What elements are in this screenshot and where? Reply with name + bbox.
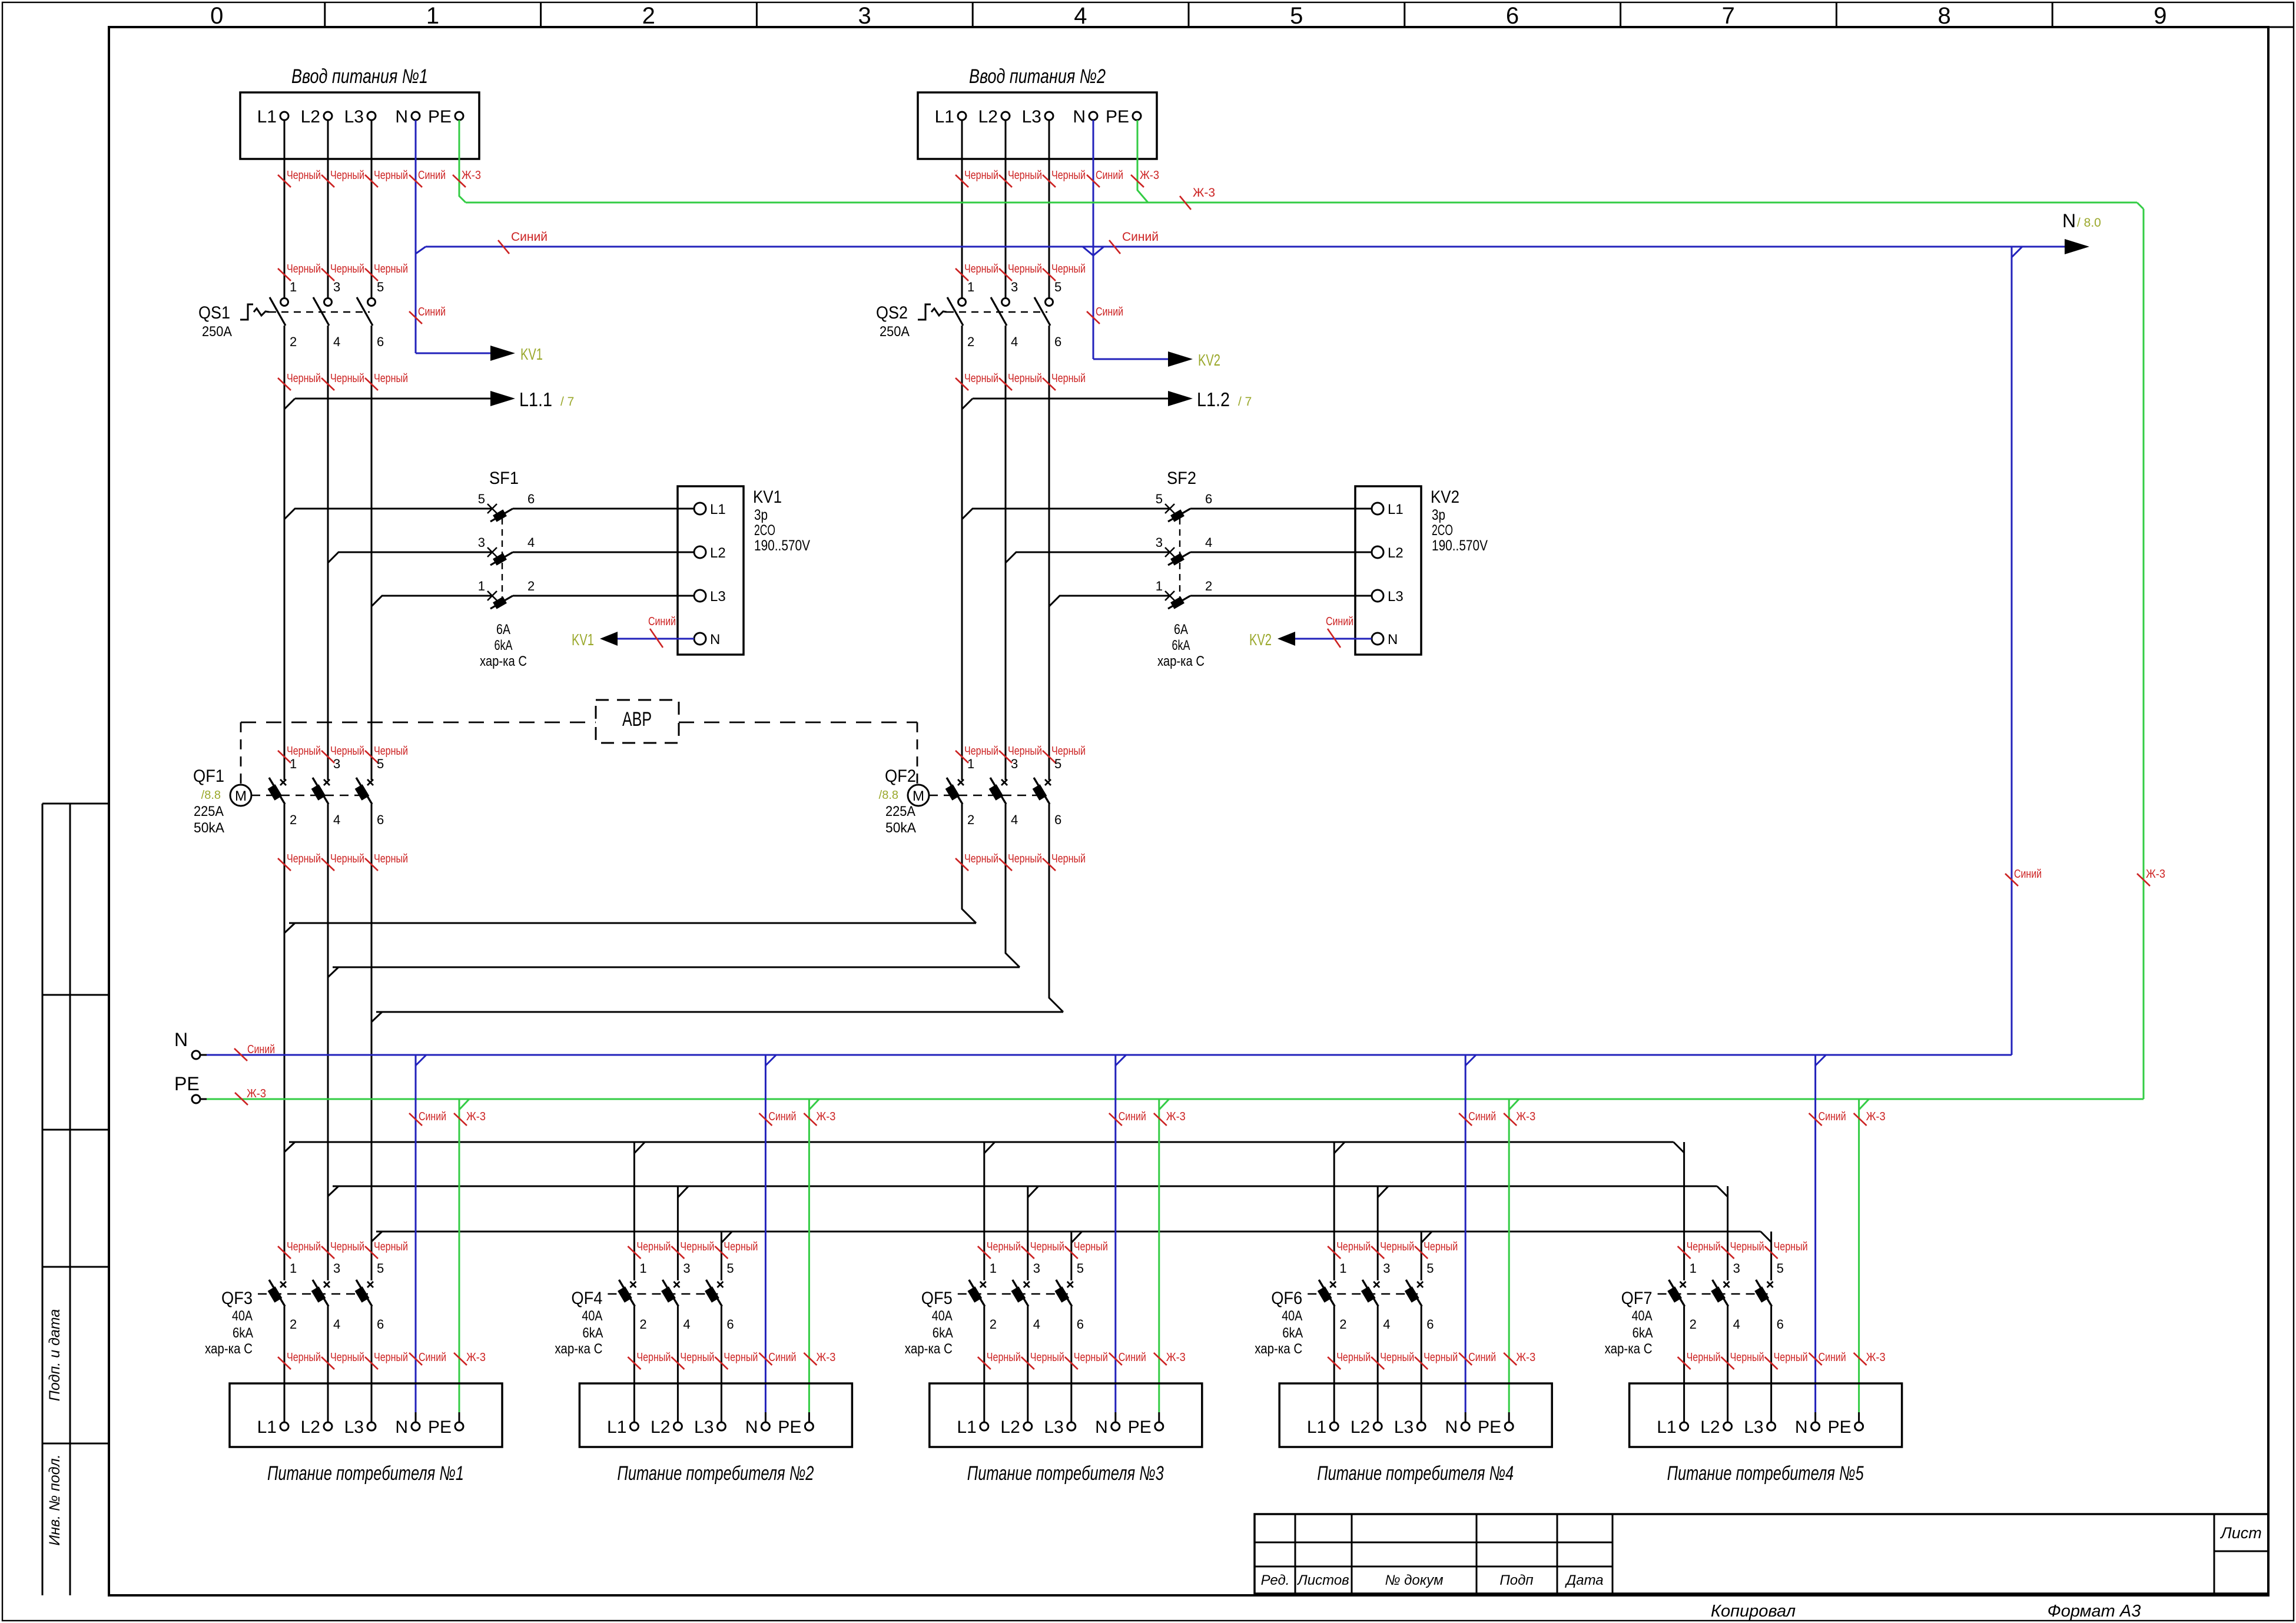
QF4 linkage dashes bbox=[608, 1293, 718, 1295]
svg-text:Ж-3: Ж-3 bbox=[816, 1351, 835, 1364]
svg-text:Черный: Черный bbox=[1336, 1351, 1371, 1364]
svg-text:Синий: Синий bbox=[768, 1351, 796, 1364]
wire color label "Ж-3" bbox=[1504, 1110, 1535, 1126]
svg-text:1: 1 bbox=[290, 280, 297, 294]
svg-text:Черный: Черный bbox=[330, 372, 364, 385]
wire color label "Черный" bbox=[671, 1351, 714, 1369]
svg-text:Черный: Черный bbox=[1424, 1351, 1458, 1364]
wire QF2 pole 3 down to tie line bbox=[1049, 804, 1063, 1012]
wire QF3 pole 3 to output bbox=[371, 1306, 373, 1422]
wire QF3 pole 1 to output bbox=[284, 1306, 286, 1422]
wire QF1 pole 2 down to consumer feeders bbox=[327, 804, 329, 1280]
voltage monitoring relay KV2 (3p 2CO 190..570V) bbox=[1355, 486, 1488, 655]
node N bus terminal bbox=[174, 1029, 207, 1059]
breaker QF3 pole 1 (pins 1-2) bbox=[268, 1261, 297, 1332]
wire color label "Синий" bbox=[498, 230, 548, 254]
input 2 terminal L3 circle bbox=[1045, 112, 1053, 120]
svg-text:L3: L3 bbox=[344, 107, 364, 127]
svg-text:Черный: Черный bbox=[964, 852, 998, 865]
wire color label "Черный" bbox=[715, 1351, 758, 1369]
consumer 5 terminal L1 circle bbox=[1680, 1422, 1688, 1431]
wire color label "Черный" bbox=[955, 745, 998, 763]
consumer 5 terminal PE circle bbox=[1855, 1422, 1863, 1431]
svg-text:5: 5 bbox=[1290, 3, 1303, 29]
svg-text:N: N bbox=[1073, 107, 1086, 127]
wire color label "Черный" bbox=[1065, 1240, 1108, 1259]
svg-text:225A: 225A bbox=[885, 804, 915, 819]
svg-text:1: 1 bbox=[290, 1261, 297, 1276]
wire input 1 N vertical (blue) bbox=[415, 120, 417, 353]
svg-text:2: 2 bbox=[290, 812, 297, 827]
svg-text:Черный: Черный bbox=[1051, 169, 1086, 182]
svg-text:5: 5 bbox=[1777, 1261, 1784, 1276]
breaker QF1 labels (225A 50kA) bbox=[193, 766, 224, 836]
svg-text:L2: L2 bbox=[1000, 1418, 1020, 1437]
svg-text:Питание потребителя №5: Питание потребителя №5 bbox=[1667, 1462, 1864, 1485]
wire color label "Черный" bbox=[1721, 1351, 1764, 1369]
wire color label "Черный" bbox=[1043, 169, 1086, 187]
wire consumer 1 N drop (blue) bbox=[416, 1055, 426, 1422]
svg-text:1: 1 bbox=[478, 579, 485, 593]
breaker QF5 pole 2 (pins 3-4) bbox=[1011, 1261, 1040, 1332]
consumer 3 terminal N circle bbox=[1111, 1422, 1120, 1431]
svg-text:Черный: Черный bbox=[374, 372, 408, 385]
svg-text:L1: L1 bbox=[710, 502, 726, 517]
wire color label "Черный" bbox=[1415, 1240, 1458, 1259]
consumer 1 terminal PE circle bbox=[455, 1422, 463, 1431]
wire color label "Черный" bbox=[365, 263, 408, 281]
svg-text:Синий: Синий bbox=[1096, 169, 1123, 182]
svg-text:Черный: Черный bbox=[1687, 1240, 1721, 1253]
svg-text:Ж-3: Ж-3 bbox=[816, 1110, 835, 1123]
wire color label "Черный" bbox=[278, 263, 321, 281]
wire QF5 pole 3 to output bbox=[1070, 1306, 1072, 1422]
wire color label "Синий" bbox=[1809, 1351, 1846, 1365]
svg-text:Ж-3: Ж-3 bbox=[1166, 1110, 1186, 1123]
wire color label "Черный" bbox=[1765, 1240, 1808, 1259]
wire color label "Черный" bbox=[1678, 1240, 1721, 1259]
svg-text:2: 2 bbox=[290, 334, 297, 349]
consumer 2 terminal L2 circle bbox=[673, 1422, 682, 1431]
breaker QF4 pole 3 (pins 5-6) bbox=[705, 1261, 734, 1332]
wire color label "Ж-3" bbox=[804, 1110, 835, 1126]
wire consumer 5 PE drop (green) bbox=[1859, 1099, 1869, 1422]
consumer 3 terminal L2 circle bbox=[1024, 1422, 1032, 1431]
svg-text:L2: L2 bbox=[1388, 545, 1404, 561]
svg-text:N: N bbox=[1095, 1418, 1108, 1437]
breaker QF2 labels (225A 50kA) bbox=[879, 766, 916, 836]
svg-text:L1: L1 bbox=[957, 1418, 976, 1437]
svg-text:Черный: Черный bbox=[636, 1351, 671, 1364]
svg-text:Черный: Черный bbox=[1008, 372, 1042, 385]
wire tap L3 to SF1 bbox=[371, 596, 492, 606]
svg-text:6: 6 bbox=[726, 1317, 734, 1332]
wire consumer 3 phase L1 drop bbox=[983, 1142, 985, 1280]
wire color label "Черный" bbox=[1371, 1351, 1414, 1369]
wire color label "Черный" bbox=[1021, 1351, 1064, 1369]
breaker QF6 pole 2 (pins 3-4) bbox=[1361, 1261, 1391, 1332]
svg-text:1: 1 bbox=[967, 756, 974, 771]
svg-text:4: 4 bbox=[1205, 535, 1212, 550]
svg-text:2: 2 bbox=[639, 1317, 646, 1332]
svg-text:8: 8 bbox=[1937, 3, 1950, 29]
wire color label "Ж-3" bbox=[1854, 1351, 1886, 1365]
wire QS2 pole 3 to QF2 bbox=[1049, 326, 1050, 780]
svg-text:Черный: Черный bbox=[1424, 1240, 1458, 1253]
wire color label "Черный" bbox=[321, 852, 364, 871]
svg-text:5: 5 bbox=[478, 492, 485, 506]
wire tap chamfer L3 consumer 3 bbox=[1071, 1232, 1082, 1243]
wire color label "Черный" bbox=[955, 852, 998, 871]
QF6 linkage dashes bbox=[1308, 1293, 1418, 1295]
wire tap L1 to SF2 bbox=[962, 509, 1170, 519]
svg-text:Ж-3: Ж-3 bbox=[2146, 868, 2165, 881]
breaker QF1 pole 1 (pins 1-2) bbox=[268, 756, 297, 827]
svg-text:190..570V: 190..570V bbox=[1432, 537, 1488, 554]
svg-text:1: 1 bbox=[967, 280, 974, 294]
breaker QF2 pole 2 (pins 3-4) bbox=[989, 756, 1018, 827]
wire color label "Черный" bbox=[978, 1240, 1021, 1259]
breaker QF4 labels (40A 6kA char C) bbox=[555, 1289, 603, 1357]
svg-text:Черный: Черный bbox=[680, 1351, 714, 1364]
svg-text:225A: 225A bbox=[194, 804, 224, 819]
node KV2 coil off-page arrow bbox=[1278, 632, 1295, 646]
wire input 2 N vertical (blue) bbox=[1093, 120, 1094, 359]
wire color label "Синий" bbox=[648, 615, 676, 648]
wire consumer 2 phase L3 drop bbox=[721, 1232, 722, 1280]
svg-text:Черный: Черный bbox=[1051, 372, 1086, 385]
svg-text:Ж-3: Ж-3 bbox=[1166, 1351, 1186, 1364]
wire color label "Синий" bbox=[1459, 1110, 1496, 1126]
wire color label "Черный" bbox=[1043, 263, 1086, 281]
wire tie line phase L1 (QF1-QF2) bbox=[284, 923, 976, 933]
wire QS2 pole 2 to QF2 bbox=[1005, 326, 1007, 780]
svg-text:Синий: Синий bbox=[1468, 1110, 1496, 1123]
wire color label "Синий" bbox=[2005, 868, 2042, 886]
wire input 1 phase L1 from terminal to QS1 bbox=[284, 120, 286, 298]
QS2 pole 3 (pins 5-6) bbox=[1034, 280, 1061, 349]
svg-text:6kA: 6kA bbox=[1172, 638, 1190, 653]
svg-text:4: 4 bbox=[333, 1317, 340, 1332]
miniature breaker SF2 (6A 6kA char C) bbox=[1156, 469, 1213, 669]
wire consumer 4 PE drop (green) bbox=[1509, 1099, 1519, 1422]
consumer 3 terminal L1 circle bbox=[980, 1422, 988, 1431]
output terminal box consumer 4 bbox=[1279, 1383, 1552, 1447]
wire KV1 N output (blue) bbox=[617, 638, 694, 640]
svg-text:L1.2: L1.2 bbox=[1197, 389, 1230, 410]
svg-text:5: 5 bbox=[377, 1261, 384, 1276]
wire consumer 3 N drop (blue) bbox=[1116, 1055, 1126, 1422]
wire color label "Ж-3" bbox=[235, 1087, 266, 1105]
wire N top bus horizontal (blue) bbox=[426, 246, 2065, 248]
svg-text:Черный: Черный bbox=[1687, 1351, 1721, 1364]
wire N right vertical (blue) bbox=[2011, 247, 2013, 1055]
wire consumer 5 phase L3 drop bbox=[1770, 1232, 1772, 1280]
breaker QF6 pole 3 (pins 5-6) bbox=[1405, 1261, 1434, 1332]
svg-text:0: 0 bbox=[210, 3, 223, 29]
svg-text:L1: L1 bbox=[935, 107, 954, 127]
QF3 linkage dashes bbox=[258, 1293, 368, 1295]
input 2 terminal L1 circle bbox=[958, 112, 966, 120]
wire QF2 pole 2 down to tie line bbox=[1006, 804, 1020, 967]
wire chamfer N tap right bbox=[2012, 247, 2022, 257]
svg-text:Ввод питания №2: Ввод питания №2 bbox=[969, 65, 1106, 88]
wire consumer 4 phase L1 drop bbox=[1333, 1142, 1335, 1280]
svg-text:Черный: Черный bbox=[987, 1351, 1021, 1364]
svg-text:QF3: QF3 bbox=[221, 1289, 253, 1308]
consumer 3 terminal L3 circle bbox=[1067, 1422, 1076, 1431]
svg-text:Синий: Синий bbox=[1468, 1351, 1496, 1364]
wire color label "Черный" bbox=[955, 169, 998, 187]
svg-text:Черный: Черный bbox=[287, 1351, 321, 1364]
svg-text:Черный: Черный bbox=[1008, 169, 1042, 182]
svg-text:Синий: Синий bbox=[418, 169, 446, 182]
svg-text:QF4: QF4 bbox=[571, 1289, 602, 1308]
wire tap chamfer L3 consumer 4 bbox=[1421, 1232, 1432, 1243]
svg-text:6: 6 bbox=[527, 492, 535, 506]
QS1 pole 3 (pins 5-6) bbox=[357, 280, 384, 349]
QF5 linkage dashes bbox=[958, 1293, 1068, 1295]
svg-text:Ж-3: Ж-3 bbox=[466, 1110, 486, 1123]
svg-text:Черный: Черный bbox=[287, 263, 321, 276]
svg-text:M: M bbox=[235, 788, 247, 804]
svg-text:250A: 250A bbox=[202, 324, 232, 340]
wire color label "Синий" bbox=[1459, 1351, 1496, 1365]
wire color label "Черный" bbox=[321, 1351, 364, 1369]
node KV1 off-page arrow bbox=[490, 346, 515, 361]
breaker QF6 labels (40A 6kA char C) bbox=[1255, 1289, 1303, 1357]
QF2 linkage dashes bbox=[929, 795, 1044, 796]
svg-text:Ж-3: Ж-3 bbox=[1193, 186, 1215, 200]
wire QS1 pole 1 to QF1 bbox=[284, 326, 286, 780]
consumer 4 terminal PE circle bbox=[1505, 1422, 1513, 1431]
svg-text:Черный: Черный bbox=[287, 1240, 321, 1253]
wire tap chamfer L1 consumer 2 bbox=[634, 1142, 645, 1153]
wire color label "Синий" bbox=[1109, 230, 1159, 254]
wire SF1 row 3 to KV1 bbox=[513, 595, 694, 597]
wire QF6 pole 2 to output bbox=[1377, 1306, 1379, 1422]
wire color label "Черный" bbox=[278, 1240, 321, 1259]
svg-text:PE: PE bbox=[778, 1418, 801, 1437]
breaker QF5 labels (40A 6kA char C) bbox=[905, 1289, 953, 1357]
svg-text:3: 3 bbox=[333, 756, 340, 771]
wire distribution line phase L3 bbox=[371, 1232, 1771, 1242]
svg-text:L1: L1 bbox=[1657, 1418, 1676, 1437]
svg-text:PE: PE bbox=[174, 1073, 200, 1094]
wire consumer 2 phase L2 drop bbox=[677, 1186, 679, 1280]
svg-text:1: 1 bbox=[426, 3, 439, 29]
svg-text:SF2: SF2 bbox=[1167, 469, 1196, 488]
breaker QF7 labels (40A 6kA char C) bbox=[1605, 1289, 1653, 1357]
svg-text:Ж-3: Ж-3 bbox=[1866, 1110, 1886, 1123]
wire color label "Черный" bbox=[365, 372, 408, 390]
svg-text:Черный: Черный bbox=[636, 1240, 671, 1253]
wire color label "Синий" bbox=[1087, 306, 1123, 324]
breaker QF5 pole 3 (pins 5-6) bbox=[1054, 1261, 1084, 1332]
wire QF1 pole 1 down to consumer feeders bbox=[284, 804, 286, 1280]
svg-text:N: N bbox=[1795, 1418, 1808, 1437]
svg-text:Черный: Черный bbox=[1774, 1240, 1808, 1253]
wire consumer 3 phase L3 drop bbox=[1070, 1232, 1072, 1280]
svg-text:Черный: Черный bbox=[964, 372, 998, 385]
svg-text:Подп. и дата: Подп. и дата bbox=[47, 1309, 63, 1402]
svg-text:L3: L3 bbox=[694, 1418, 714, 1437]
wire color label "Синий" bbox=[409, 306, 446, 324]
svg-text:2CO: 2CO bbox=[754, 522, 775, 539]
svg-text:2: 2 bbox=[1205, 579, 1212, 593]
svg-text:Черный: Черный bbox=[1008, 852, 1042, 865]
svg-text:9: 9 bbox=[2154, 3, 2166, 29]
svg-text:Черный: Черный bbox=[330, 1240, 364, 1253]
svg-text:Черный: Черный bbox=[680, 1240, 714, 1253]
svg-text:3: 3 bbox=[683, 1261, 690, 1276]
svg-text:хар-ка C: хар-ка C bbox=[205, 1341, 253, 1357]
svg-text:Черный: Черный bbox=[1380, 1351, 1414, 1364]
wire color label "Черный" bbox=[321, 1240, 364, 1259]
disconnect switch QS2 handle and linkage bbox=[876, 303, 1047, 340]
svg-text:QF2: QF2 bbox=[885, 766, 916, 786]
svg-text:Синий: Синий bbox=[1122, 230, 1159, 244]
svg-text:QF7: QF7 bbox=[1621, 1289, 1653, 1308]
svg-text:6: 6 bbox=[1777, 1317, 1784, 1332]
wire N bus (blue) bbox=[207, 1054, 2012, 1056]
wire color label "Черный" bbox=[278, 1351, 321, 1369]
wire color label "Черный" bbox=[321, 169, 364, 187]
svg-text:L3: L3 bbox=[1744, 1418, 1763, 1437]
wire color label "Черный" bbox=[278, 169, 321, 187]
svg-text:4: 4 bbox=[333, 334, 340, 349]
wire SF2 row 1 to KV2 bbox=[1190, 508, 1372, 510]
svg-text:Синий: Синий bbox=[1096, 306, 1123, 318]
svg-text:Черный: Черный bbox=[1030, 1351, 1064, 1364]
consumer 5 terminal N circle bbox=[1811, 1422, 1820, 1431]
svg-text:5: 5 bbox=[1054, 756, 1061, 771]
svg-text:3p: 3p bbox=[754, 507, 768, 523]
svg-text:4: 4 bbox=[1011, 812, 1018, 827]
breaker QF1 pole 2 (pins 3-4) bbox=[311, 756, 341, 827]
svg-text:Синий: Синий bbox=[419, 1110, 446, 1123]
breaker QF2 pole 1 (pins 1-2) bbox=[945, 756, 975, 827]
svg-text:АВР: АВР bbox=[622, 708, 652, 731]
svg-text:L2: L2 bbox=[1351, 1418, 1370, 1437]
node L1.1 off-page arrow bbox=[490, 391, 515, 406]
input terminal box Ввод питания №1 bbox=[240, 92, 479, 159]
svg-text:PE: PE bbox=[1106, 107, 1129, 127]
wire QF6 pole 3 to output bbox=[1421, 1306, 1422, 1422]
svg-text:L1: L1 bbox=[257, 1418, 277, 1437]
svg-text:5: 5 bbox=[1156, 492, 1163, 506]
svg-text:хар-ка C: хар-ка C bbox=[1605, 1341, 1653, 1357]
svg-text:PE: PE bbox=[1128, 1418, 1152, 1437]
svg-text:6: 6 bbox=[1506, 3, 1519, 29]
wire chamfer N1 to bus bbox=[416, 247, 426, 254]
svg-text:Ввод питания №1: Ввод питания №1 bbox=[291, 65, 428, 88]
svg-text:6: 6 bbox=[377, 1317, 384, 1332]
svg-text:N: N bbox=[1388, 632, 1398, 648]
svg-text:KV1: KV1 bbox=[520, 345, 543, 363]
wire color label "Черный" bbox=[1043, 852, 1086, 871]
wire color label "Синий" bbox=[1087, 169, 1123, 187]
wire QF7 pole 3 to output bbox=[1770, 1306, 1772, 1422]
svg-text:6kA: 6kA bbox=[1282, 1325, 1303, 1341]
svg-text:L2: L2 bbox=[1700, 1418, 1720, 1437]
svg-text:Ж-3: Ж-3 bbox=[247, 1087, 266, 1100]
svg-text:Ж-3: Ж-3 bbox=[462, 169, 481, 182]
svg-text:2CO: 2CO bbox=[1432, 522, 1453, 539]
svg-text:4: 4 bbox=[1074, 3, 1087, 29]
consumer 3 terminal PE circle bbox=[1155, 1422, 1163, 1431]
svg-text:50kA: 50kA bbox=[885, 820, 916, 836]
breaker QF3 pole 3 (pins 5-6) bbox=[355, 1261, 384, 1332]
wire color label "Черный" bbox=[365, 1351, 408, 1369]
svg-text:40A: 40A bbox=[1632, 1308, 1653, 1324]
svg-text:40A: 40A bbox=[232, 1308, 253, 1324]
svg-text:3: 3 bbox=[1011, 280, 1018, 294]
QS1 pole 1 (pins 1-2) bbox=[270, 280, 297, 349]
wire consumer 3 phase L2 drop bbox=[1027, 1186, 1028, 1280]
svg-text:6: 6 bbox=[377, 334, 384, 349]
wire color label "Черный" bbox=[999, 852, 1042, 871]
svg-text:PE: PE bbox=[1478, 1418, 1501, 1437]
svg-text:QF6: QF6 bbox=[1271, 1289, 1302, 1308]
svg-text:4: 4 bbox=[683, 1317, 690, 1332]
wire input 2 PE vertical (green) bbox=[1137, 120, 1148, 203]
wire consumer 5 phase L2 drop bbox=[1727, 1186, 1728, 1280]
wire consumer 5 phase L1 drop bbox=[1683, 1142, 1685, 1280]
wire input 1 phase L3 from terminal to QS1 bbox=[371, 120, 373, 298]
wire consumer 3 PE drop (green) bbox=[1159, 1099, 1169, 1422]
svg-text:Черный: Черный bbox=[330, 263, 364, 276]
svg-text:Черный: Черный bbox=[964, 745, 998, 758]
node N / 8.0 off-page arrow bbox=[2065, 239, 2089, 254]
svg-text:/ 8.0: / 8.0 bbox=[2077, 216, 2101, 230]
svg-text:Черный: Черный bbox=[374, 745, 408, 758]
svg-text:Черный: Черный bbox=[330, 745, 364, 758]
svg-text:L3: L3 bbox=[1388, 589, 1404, 605]
svg-text:L2: L2 bbox=[301, 107, 320, 127]
breaker QF6 pole 1 (pins 1-2) bbox=[1318, 1261, 1347, 1332]
svg-text:6: 6 bbox=[377, 812, 384, 827]
wire QF6 pole 1 to output bbox=[1333, 1306, 1335, 1422]
svg-text:6: 6 bbox=[1205, 492, 1212, 506]
dashed interlock right run bbox=[679, 722, 917, 723]
wire color label "Черный" bbox=[1415, 1351, 1458, 1369]
wire input 2 phase L1 from terminal to QS2 bbox=[961, 120, 963, 298]
svg-text:Черный: Черный bbox=[964, 169, 998, 182]
output terminal box consumer 2 bbox=[579, 1383, 852, 1447]
svg-text:L1: L1 bbox=[257, 107, 277, 127]
svg-text:/ 7: / 7 bbox=[560, 395, 574, 409]
consumer 4 terminal L1 circle bbox=[1330, 1422, 1338, 1431]
svg-text:2: 2 bbox=[1690, 1317, 1697, 1332]
svg-text:Синий: Синий bbox=[1119, 1351, 1146, 1364]
wire SF1 row 2 to KV1 bbox=[513, 552, 694, 553]
dashed interlock QF1 riser bbox=[240, 722, 242, 784]
wire color label "Черный" bbox=[628, 1351, 671, 1369]
wire color label "Черный" bbox=[978, 1351, 1021, 1369]
svg-text:1: 1 bbox=[290, 756, 297, 771]
wire color label "Черный" bbox=[715, 1240, 758, 1259]
wire color label "Черный" bbox=[321, 263, 364, 281]
dashed interlock QF2 riser bbox=[917, 722, 918, 784]
svg-text:3: 3 bbox=[1156, 535, 1163, 550]
wire input 2 phase L2 from terminal to QS2 bbox=[1005, 120, 1007, 298]
svg-text:KV2: KV2 bbox=[1249, 630, 1272, 649]
consumer 2 terminal L3 circle bbox=[717, 1422, 725, 1431]
wire tap chamfer L3 consumer 2 bbox=[721, 1232, 732, 1243]
input 1 terminal L1 circle bbox=[280, 112, 288, 120]
svg-text:3: 3 bbox=[1011, 756, 1018, 771]
